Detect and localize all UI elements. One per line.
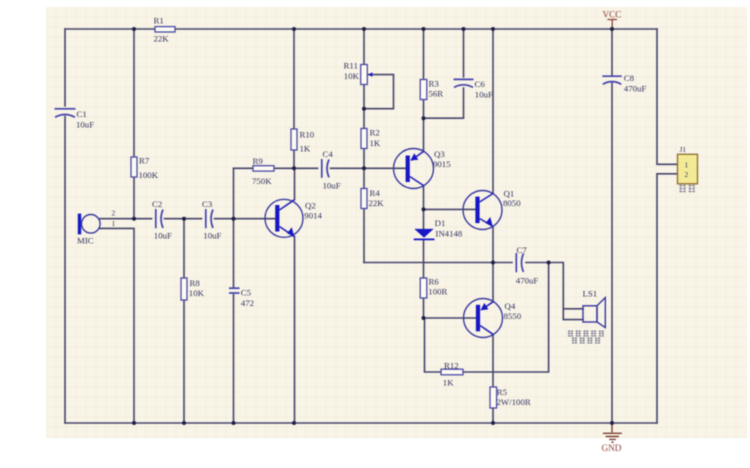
junction dots top rail	[132, 27, 614, 31]
capacitor C8	[602, 73, 646, 93]
svg-text:C4: C4	[323, 149, 334, 159]
wire right rail lower from J1 pin2	[657, 174, 678, 423]
transistor Q3	[394, 149, 452, 189]
speaker note text line2	[572, 337, 601, 343]
svg-text:VCC: VCC	[603, 10, 622, 20]
svg-text:750K: 750K	[252, 176, 272, 186]
svg-text:C5: C5	[241, 287, 252, 297]
capacitor C4	[322, 149, 341, 190]
resistor R2	[361, 127, 381, 148]
wire C6 branch	[424, 29, 464, 118]
svg-text:10K: 10K	[344, 71, 360, 81]
speaker LS1	[583, 288, 606, 327]
wire R11 R2 R4 column	[363, 29, 365, 263]
wire Q1 collector	[492, 29, 494, 194]
resistor R10	[291, 129, 315, 153]
wire R3 column	[423, 29, 425, 152]
svg-text:R2: R2	[370, 127, 380, 137]
svg-text:100K: 100K	[139, 170, 159, 180]
svg-text:R4: R4	[370, 188, 381, 198]
capacitor C7	[516, 245, 539, 285]
connector J1 label 供电	[679, 185, 695, 193]
svg-text:R8: R8	[190, 278, 201, 288]
svg-text:10K: 10K	[189, 288, 205, 298]
svg-text:22K: 22K	[369, 198, 385, 208]
svg-text:10uF: 10uF	[76, 119, 94, 129]
wire bias row to C7 and speaker	[364, 263, 583, 320]
capacitor C6	[454, 79, 493, 99]
svg-text:C7: C7	[517, 245, 528, 255]
wire Q2 emitter to ground	[294, 237, 296, 423]
wire R11 wiper loop	[364, 75, 394, 109]
resistor R5	[490, 387, 531, 408]
resistor R8	[181, 278, 205, 300]
speaker note text line1	[568, 330, 604, 336]
svg-text:470uF: 470uF	[516, 276, 539, 286]
svg-text:1: 1	[685, 161, 689, 170]
resistor R4	[361, 188, 384, 209]
transistor Q2	[265, 199, 322, 237]
wire Q1 emitter to Q4 emitter	[492, 227, 494, 302]
wire Q2 collector	[294, 168, 296, 199]
svg-text:1K: 1K	[300, 143, 311, 153]
power port GND	[602, 423, 622, 453]
svg-text:R3: R3	[429, 78, 440, 88]
resistor R12	[441, 360, 463, 387]
wire left rail	[64, 29, 66, 423]
junction dots bottom rail	[132, 421, 614, 425]
svg-text:R7: R7	[139, 156, 150, 166]
svg-text:10uF: 10uF	[323, 180, 341, 190]
resistor R3	[420, 78, 443, 99]
wire R6 node to Q4 base	[424, 317, 476, 319]
svg-text:10uF: 10uF	[154, 230, 172, 240]
wire top rail	[65, 28, 657, 30]
svg-text:8050: 8050	[503, 198, 521, 208]
svg-text:1K: 1K	[370, 138, 381, 148]
svg-text:R12: R12	[444, 360, 459, 370]
transistor Q4	[464, 299, 522, 338]
resistor R6	[420, 277, 447, 298]
microphone MIC	[77, 208, 116, 245]
capacitor C3	[202, 199, 221, 241]
resistor R7	[131, 156, 159, 180]
wire bottom rail	[65, 422, 657, 424]
resistor R11 potentiometer	[344, 61, 373, 85]
svg-text:R10: R10	[300, 129, 315, 139]
wire R9 C4 row to Q3 base	[234, 167, 406, 169]
wire R12 feedback net	[425, 263, 549, 373]
svg-text:R11: R11	[344, 61, 358, 71]
capacitor C1	[55, 109, 95, 130]
capacitor C2	[152, 199, 172, 241]
wire R7 column	[133, 29, 135, 219]
wire node to Q1 base	[424, 208, 476, 210]
junction dots signal row	[132, 217, 236, 221]
resistor R9	[252, 156, 274, 186]
svg-text:J1: J1	[680, 145, 687, 154]
diode D1	[414, 218, 463, 239]
svg-text:22K: 22K	[154, 33, 170, 43]
svg-text:R5: R5	[497, 387, 508, 397]
wire C5 / R9-left column	[233, 168, 235, 423]
transistor Q1	[463, 188, 521, 229]
svg-text:LS1: LS1	[583, 288, 598, 298]
junction dots middle	[292, 107, 551, 320]
wire C8 column	[611, 29, 613, 423]
svg-text:2: 2	[112, 208, 116, 217]
svg-text:IN4148: IN4148	[435, 229, 462, 239]
svg-text:R9: R9	[253, 156, 264, 166]
wire mic pin1 to ground	[100, 228, 134, 423]
wire mic signal row	[100, 218, 275, 220]
svg-text:56R: 56R	[429, 89, 444, 99]
svg-text:1: 1	[112, 219, 116, 228]
wire R8 column	[183, 219, 185, 423]
svg-text:MIC: MIC	[77, 235, 94, 245]
svg-text:Q3: Q3	[434, 149, 445, 159]
svg-text:Q4: Q4	[505, 301, 516, 311]
svg-text:9015: 9015	[433, 159, 451, 169]
wire Q4 collector to R5	[492, 334, 494, 423]
svg-text:C3: C3	[202, 199, 213, 209]
svg-text:8550: 8550	[504, 311, 522, 321]
svg-text:GND: GND	[602, 443, 622, 453]
svg-text:Q2: Q2	[305, 201, 316, 211]
svg-text:1K: 1K	[443, 377, 454, 387]
wire D1 R6 column	[423, 209, 425, 318]
power port VCC	[603, 10, 622, 30]
svg-text:10uF: 10uF	[203, 230, 221, 240]
svg-text:C2: C2	[152, 199, 162, 209]
svg-text:472: 472	[241, 298, 254, 308]
wire Q3 collector to node	[423, 186, 425, 210]
connector J1	[678, 145, 698, 184]
svg-text:2W/100R: 2W/100R	[497, 397, 531, 407]
wire R10 column	[293, 29, 295, 168]
svg-text:2: 2	[685, 170, 689, 179]
svg-text:D1: D1	[435, 218, 446, 228]
svg-text:9014: 9014	[304, 210, 322, 220]
wire right rail upper to J1 pin1	[657, 29, 678, 164]
svg-text:C6: C6	[475, 79, 486, 89]
svg-text:470uF: 470uF	[624, 84, 647, 94]
svg-text:R1: R1	[154, 15, 164, 25]
svg-text:10uF: 10uF	[475, 89, 493, 99]
svg-text:R6: R6	[429, 277, 440, 287]
resistor R1	[154, 15, 176, 43]
svg-text:Q1: Q1	[504, 188, 515, 198]
svg-text:C8: C8	[624, 73, 635, 83]
capacitor C5	[229, 287, 254, 308]
svg-text:100R: 100R	[428, 286, 447, 296]
svg-text:C1: C1	[77, 109, 87, 119]
